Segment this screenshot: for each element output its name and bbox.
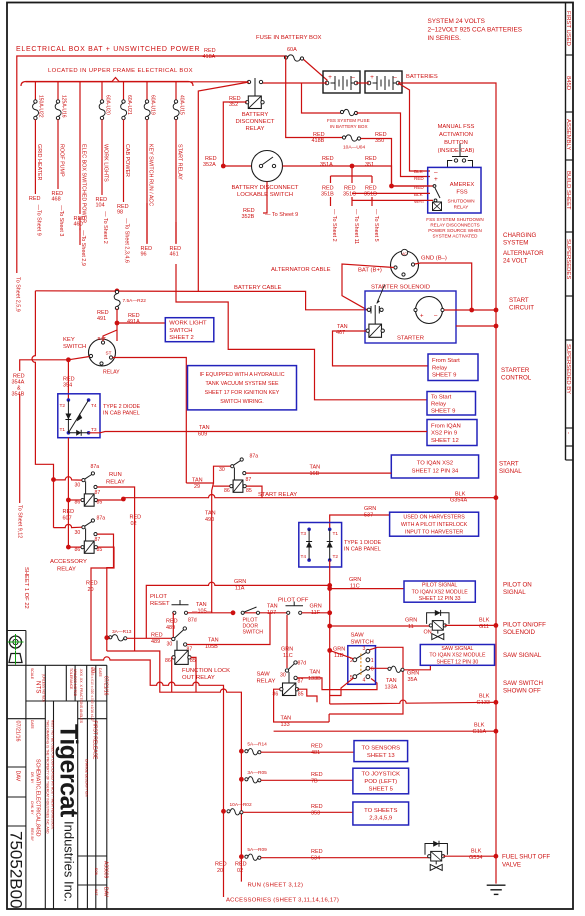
svg-text:—To Sheet 3: —To Sheet 3 [58,205,64,236]
svg-text:86: 86 [224,488,230,494]
label battery disconnect relay l2 [236,119,275,125]
label RED 489 a n [151,639,160,645]
label TAN 107 t [267,604,278,610]
svg-text:SCHEMATIC,ELECTRICAL,845D: SCHEMATIC,ELECTRICAL,845D [35,759,41,837]
svg-text:G11: G11 [479,624,489,630]
label TAN 105 t [196,602,207,608]
svg-text:INIT: INIT [94,889,98,895]
svg-text:BLK: BLK [414,169,424,174]
label RED 354 [63,377,75,383]
wire RED 491A [117,309,165,342]
alternator [391,249,419,279]
label GRN 11C t [349,577,361,583]
svg-text:— To Sheet 5: — To Sheet 5 [373,209,379,242]
label TAN 609 num [198,432,207,438]
svg-text:TO SENSORS: TO SENSORS [362,746,401,752]
svg-text:351A: 351A [320,162,333,168]
wire key left RED 354A/B [20,291,90,528]
svg-text:CAB POWER: CAB POWER [124,144,130,177]
label PILOT RESET l2 [150,601,170,607]
svg-text:10A—R02: 10A—R02 [230,802,252,808]
label GRN 11C saw n [283,653,293,659]
sidebar label 845D [565,76,571,90]
solenoid valve PILOT ON/OFF [427,610,449,640]
label acc 87 [95,537,101,543]
svg-text:SHEET 9: SHEET 9 [431,408,455,414]
svg-text:–: – [351,74,355,81]
label manual FSS l3 [444,140,468,146]
svg-text:RELAY: RELAY [454,205,469,210]
svg-text:SWITCH: SWITCH [169,328,192,334]
svg-text:489: 489 [166,625,175,631]
label RED 20 upper num [88,587,94,593]
svg-text:RED: RED [166,619,178,625]
label TAN 490 t [205,511,216,517]
wire GRN 11D [330,650,354,658]
svg-text:5A—R09: 5A—R09 [247,847,267,853]
wire GRN 35A [370,667,390,669]
wire RED 354 to diode [67,360,69,399]
label TAN 105B t [208,638,219,644]
label TAN 133A n [385,685,398,691]
diode block TYPE 1 box [299,523,342,568]
svg-text:PILOT: PILOT [150,594,167,600]
svg-text:RUN: RUN [109,472,122,478]
wire alternator cable [342,264,394,310]
label RUN RELAY l1 [109,472,122,478]
junction bus RED 607 [66,498,71,503]
fuse 125A-U16 (ROOF PUMP) [55,100,61,120]
svg-text:351D: 351D [364,192,377,198]
svg-text:351: 351 [365,162,374,168]
svg-text:11C: 11C [283,653,293,659]
wire GRN 11 to valve [330,625,430,627]
svg-text:IN BATTERY BOX: IN BATTERY BOX [330,124,368,129]
FSS shutdown relay contact [433,185,442,211]
label RED 351 num [365,162,374,168]
wire feed WORK LIGHTS upper [101,82,103,101]
label RED 20 bottom t [215,862,227,868]
label TAN 29 t [192,478,203,484]
svg-text:GND (B–): GND (B–) [421,256,447,262]
label 534 n [311,856,320,862]
svg-text:460: 460 [74,222,83,228]
wire start coil 85 down [246,486,262,498]
svg-text:FUSE IN BATTERY BOX: FUSE IN BATTERY BOX [256,35,322,41]
starter box [365,291,456,343]
label TAN 133B n [308,676,321,682]
title property note line1 [46,720,50,834]
battery disconnect relay contact [247,78,262,96]
wire fn 86 down [171,657,174,692]
wire acc coil 86 [68,546,80,548]
svg-text:GRN: GRN [405,618,417,624]
junction RED 489 tap [104,635,109,640]
label start 85 [246,488,252,494]
starter solenoid contact [367,285,385,325]
svg-text:468: 468 [52,197,61,203]
ground symbol [487,885,506,894]
label GRN 11 n [408,624,414,630]
svg-text:2,3,4,5,9: 2,3,4,5,9 [369,815,392,821]
wire battery minus to FSS [398,83,430,171]
svg-text:10A—U04: 10A—U04 [343,145,365,151]
node box WORK LIGHT SWITCH SHEET 2 [165,318,214,342]
label RED 418B num [312,138,325,144]
svg-text:BUILD SHEET: BUILD SHEET [565,171,571,210]
svg-text:±.005 ±.010 ±.020 ±.040 ±1/16: ±.005 ±.010 ±.020 ±.040 ±1/16 ±1/2° [90,667,94,723]
wire RED 481 tap out [261,751,354,753]
svg-text:WORK LIGHT: WORK LIGHT [169,320,207,326]
svg-text:133: 133 [281,722,290,728]
wire FSS fuse to plus [357,113,431,177]
svg-text:SWITCH: SWITCH [351,640,374,646]
wire WORK LIGHTS vertical [101,120,103,196]
svg-text:—To Sheet 2,3,4,6: —To Sheet 2,3,4,6 [124,218,130,263]
svg-text:–: – [434,314,438,320]
wire red354A lower [19,440,21,503]
svg-text:SYSTEM 24 VOLTS: SYSTEM 24 VOLTS [428,18,485,25]
svg-text:60A-U20: 60A-U20 [104,95,110,115]
svg-text:07/21/16: 07/21/16 [103,676,109,696]
label RED 351A [322,156,334,162]
svg-text:+: + [328,74,332,81]
svg-text:105B: 105B [205,644,218,650]
wire acc 87 path [97,534,113,651]
svg-text:SHEET 12: SHEET 12 [431,438,459,444]
wire run coil 85 [98,499,124,501]
wire START RELAY vertical [175,120,177,245]
margin alternator l1 [503,250,544,257]
svg-text:BAT: BAT [98,336,107,341]
svg-text:.XXX .XX .X FRACTIONS ANGLES: .XXX .XX .X FRACTIONS ANGLES [79,668,83,724]
svg-text:SHEET 12 PIN 30: SHEET 12 PIN 30 [437,659,479,665]
svg-text:104: 104 [96,203,105,209]
sidebar label FIRST USED [565,11,571,46]
wire 351 distribution tee [331,166,373,206]
starter motor [414,297,444,324]
svg-text:RED: RED [215,862,227,868]
label BLK G11 n [479,624,489,630]
svg-text:RED: RED [63,509,75,515]
junction GRN 11 [327,624,332,629]
wire GRN 537 [330,515,390,529]
svg-text:T3: T3 [301,531,307,537]
label FSS system fuse line2 [330,124,368,129]
label RED 354A & 354B [12,374,25,398]
label TAN 133B t [310,670,321,676]
svg-text:AC: AC [402,252,407,256]
junction RED 351 [350,164,355,169]
svg-text:TO IQAN XS2 MODULE: TO IQAN XS2 MODULE [412,589,469,595]
svg-text:STARTER SOLENOID: STARTER SOLENOID [371,285,430,291]
svg-text:From IQAN: From IQAN [431,423,461,429]
svg-text:354B: 354B [12,392,25,398]
svg-text:98: 98 [117,210,123,216]
svg-text:FUNCTION LOCK: FUNCTION LOCK [182,668,230,674]
svg-text:XS2 Pin 9: XS2 Pin 9 [431,431,457,437]
svg-text:KEY SWITCH RUN / ACC: KEY SWITCH RUN / ACC [148,144,154,206]
junction run 85 node [121,497,126,502]
label GRN 11A n [235,586,245,592]
svg-text:VALVE: VALVE [502,862,521,869]
svg-text:ROOF PUMP: ROOF PUMP [59,144,65,177]
label RED 418A [204,48,216,54]
key switch [89,336,116,366]
battery B2 [365,71,402,93]
wire CAB POWER vertical [123,120,125,203]
svg-text:RELAY: RELAY [106,480,125,486]
title REV label [30,828,34,842]
label AMEREX [450,182,475,188]
svg-text:WHT: WHT [414,199,425,204]
note box if equipped hydraulic [188,366,297,410]
svg-text:107: 107 [267,610,276,616]
margin pilot on signal l2 [503,589,526,596]
svg-text:SAW SIGNAL: SAW SIGNAL [441,646,473,652]
svg-text:LOCKABLE SWITCH: LOCKABLE SWITCH [237,192,293,198]
title EON [94,868,98,876]
wire valve to bus BLK G11 [445,624,496,626]
label acc 86 [75,547,81,553]
svg-text:EON: EON [94,868,98,876]
label RED fss relay [414,185,424,190]
label run 86 [75,500,81,506]
svg-text:ALTERNATOR CABLE: ALTERNATOR CABLE [271,267,331,273]
label battery disconnect lockable switch l2 [237,192,293,198]
wire acc 30 feed [54,524,82,527]
svg-text:96: 96 [141,252,147,258]
label FSS system fuse line1 [327,118,370,123]
title rev header 00 [90,668,96,674]
wire number label RED 461 (START RELAY) [170,246,182,258]
svg-text:87: 87 [298,679,304,685]
wire relay output diagonal [35,82,367,310]
label start 30 [219,467,225,473]
svg-text:Relay: Relay [431,401,446,407]
label run 87 [95,490,101,496]
wire GRN 11A [146,582,329,638]
sidebar label BUILD SHEET [565,171,571,210]
svg-text:SOLENOID: SOLENOID [503,629,536,636]
battery disconnect relay coil [245,96,264,109]
svg-text:START RELAY: START RELAY [258,492,297,498]
label BATTERIES [406,74,438,80]
relay FUNCTION LOCK OUT switch [172,627,187,651]
label valve ON [424,630,432,636]
svg-text:RELAY: RELAY [257,679,276,685]
label GND (B-) [421,256,447,262]
title DATE2 label [98,668,102,678]
wire TAN 105B [187,613,270,645]
svg-text:85: 85 [190,658,196,664]
wire KEY SWITCH RUN / ACC vertical [146,120,148,245]
svg-text:SHEET 2: SHEET 2 [169,335,193,341]
label FUNCTION LOCK OUT l1 [182,668,230,674]
title DAV sig [103,887,109,898]
wire fss relay red in [392,185,434,187]
svg-text:418A: 418A [203,54,216,60]
label pilot door switch l1 [243,618,259,624]
label BLK G133 t [479,694,490,700]
wire feed CAB POWER upper [123,82,125,101]
label manual FSS l2 [439,132,473,138]
label saw 85 [298,692,304,698]
label WHT fss relay [414,199,425,204]
svg-text:NTS: NTS [35,681,42,693]
revision sidebar column [566,3,574,461]
label RED 352 num [229,102,238,108]
pilot door switch [241,607,260,614]
title scale NTS [35,681,42,693]
title drby DAV [15,771,21,782]
svg-text:60A-U21: 60A-U21 [126,95,132,115]
svg-text:RED: RED [151,633,163,639]
label to sheet 2 (351B) [331,209,337,242]
label shutdown relay l1 [447,199,474,204]
label start 87a [250,454,259,460]
svg-text:GRN: GRN [349,577,361,583]
wire number label RED (GRID HEATER) [29,196,41,202]
note box used on harvesters [390,512,479,536]
sidebar label SUPERSEDED BY [565,344,571,394]
wire alternator gnd to bus [415,263,472,310]
label RED 489 b t [166,619,178,625]
svg-text:DR. BY: DR. BY [30,772,34,784]
svg-text:GRN: GRN [310,604,322,610]
node box SAW SIGNAL [420,645,494,666]
wire fss relay blk in [352,192,430,194]
svg-text:STARTER: STARTER [501,367,530,374]
wire fuse 60A to battery1 [304,60,327,84]
svg-text:SAW SWITCH: SAW SWITCH [503,680,543,687]
svg-text:491: 491 [97,316,106,322]
label shutdown relay l2 [454,205,469,210]
note system 24 volts l3 [428,35,462,42]
svg-text:2–12VOLT 925 CCA BATTERIES: 2–12VOLT 925 CCA BATTERIES [428,27,522,34]
wire start 87 TAN16B [246,472,391,474]
svg-text:30: 30 [75,530,81,536]
wire BLK G11A [274,730,496,732]
svg-text:4: 4 [363,678,366,684]
svg-text:353: 353 [311,810,320,816]
label RED 351C [344,186,356,192]
title part number 75052B00 [7,831,26,909]
svg-text:87: 87 [95,490,101,496]
label saw 30 [280,673,286,679]
svg-text:354: 354 [63,383,72,389]
wire RED 534 tap out [261,857,431,859]
svg-text:87d: 87d [188,618,197,624]
label ACCESSORY RELAY l1 [50,559,87,565]
svg-text:467: 467 [336,330,345,336]
svg-text:UNLESS NOTED: UNLESS NOTED [73,669,77,697]
svg-text:SWITCH: SWITCH [63,344,86,350]
title SCALE label [30,668,34,680]
svg-text:WORK LIGHTS: WORK LIGHTS [103,144,109,182]
svg-text:SHEET 12 PIN 33: SHEET 12 PIN 33 [419,596,461,602]
svg-text:To Sheet 9,12: To Sheet 9,12 [17,505,23,538]
label RED 351B num [321,192,334,198]
label GRN 11F n [311,610,321,616]
svg-text:SWITCH WIRING.: SWITCH WIRING. [220,399,264,405]
svg-text:352: 352 [229,102,238,108]
wire number label RED 460 (ELEC BOX SWITCHED POWER) [74,216,86,228]
svg-text:60A: 60A [287,47,297,53]
tolerance text col2 [79,668,83,724]
svg-text:SYSTEM: SYSTEM [503,240,528,247]
label alternator cable [271,267,331,273]
node box To Start Relay SHEET 9 [427,392,476,416]
wire saw sw 3 out [329,647,403,714]
junction acc 86 [66,545,71,550]
svg-text:T1: T1 [60,427,66,433]
label SAW RELAY l1 [257,672,271,678]
svg-text:T2: T2 [333,554,339,560]
label TAN 467 num [336,330,345,336]
wire TAN 105 [188,612,234,614]
svg-text:BATTERY DISCONNECT: BATTERY DISCONNECT [231,185,298,191]
svg-text:351B: 351B [321,192,334,198]
label to sheet 5 (351D) [373,209,379,242]
wire key bat [103,330,117,341]
svg-text:GRN: GRN [407,671,419,677]
wire GRID HEATER vertical [34,120,36,195]
svg-text:+: + [370,74,374,81]
note system 24 volts l1 [428,18,485,25]
svg-text:POD (LEFT): POD (LEFT) [364,779,397,785]
svg-text:TYPE 1 DIODE: TYPE 1 DIODE [344,540,382,546]
battery B1 [323,71,360,93]
junction BLK G11 [494,623,499,628]
svg-text:SUPERSEDES: SUPERSEDES [565,239,571,279]
label KEY SWITCH l1 [63,337,75,343]
svg-text:30: 30 [280,673,286,679]
svg-text:POWER SOURCE WHEN: POWER SOURCE WHEN [428,228,482,233]
wire T3 tan609 [89,432,427,433]
label TAN 29 n [194,484,200,490]
svg-text:FUEL SHUT OFF: FUEL SHUT OFF [502,854,550,861]
title schematic name [35,759,41,837]
wire battery link [356,82,369,84]
svg-text:SWITCH: SWITCH [243,630,264,636]
svg-text:461: 461 [170,252,179,258]
label 7.5A-R22 [123,298,147,304]
svg-text:IN CAB PANEL: IN CAB PANEL [344,547,381,553]
function label ELEC BOX SWITCHED POWER [81,144,87,223]
label BLK G11 t [479,618,490,624]
margin saw signal [503,652,542,659]
junction start circuit 3 [494,324,499,329]
label acc 30 [75,530,81,536]
margin alternator l2 [503,258,528,265]
label RED 351D num [364,192,377,198]
svg-text:RELAY: RELAY [246,126,265,132]
wire RED 352 coil to switch [223,102,252,166]
label BAT (B+) [358,268,382,274]
label KEY SWITCH l2 [63,344,86,350]
label 5A-R09 [247,847,267,853]
function label CAB POWER [124,144,130,177]
label type 1 diode l2 [344,547,381,553]
label fuse in battery box [256,35,322,41]
label fn 86 [165,658,171,664]
junction BLK G534 [494,854,499,859]
label RED 351D [365,186,377,192]
label 7B n [311,778,318,784]
sidebar label SUPERSEDES [565,239,571,279]
svg-text:USED ON HARVESTERS: USED ON HARVESTERS [403,515,465,521]
